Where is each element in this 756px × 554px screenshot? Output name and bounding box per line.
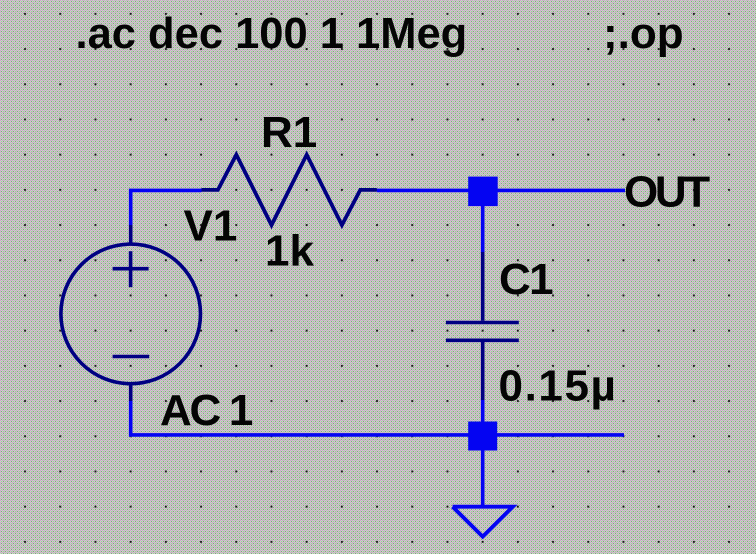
svg-text:OUT: OUT bbox=[624, 168, 710, 217]
svg-text:R1: R1 bbox=[261, 108, 317, 157]
svg-text:AC 1: AC 1 bbox=[160, 386, 253, 435]
svg-text:V1: V1 bbox=[184, 202, 238, 251]
svg-text:0.15µ: 0.15µ bbox=[499, 361, 618, 410]
svg-text:1k: 1k bbox=[265, 227, 314, 276]
svg-text:.ac dec 100 1 1Meg: .ac dec 100 1 1Meg bbox=[76, 10, 468, 58]
svg-text:C1: C1 bbox=[499, 255, 553, 304]
svg-text:;.op: ;.op bbox=[603, 9, 684, 58]
